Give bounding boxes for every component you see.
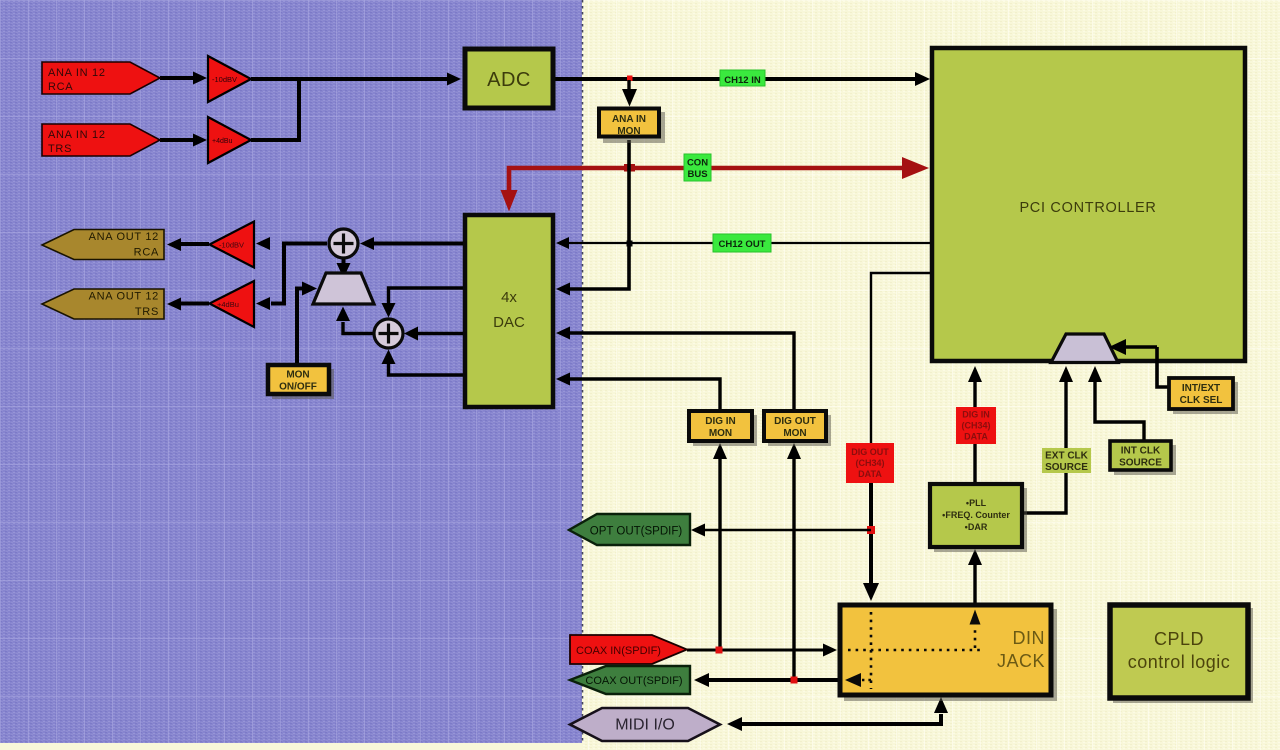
svg-text:TRS: TRS [48, 143, 72, 155]
box DIG OUT MON [764, 411, 831, 446]
junction dot DIG OUT / OPT OUT [867, 526, 875, 534]
connector ANA OUT 12 TRS [42, 289, 164, 319]
amp A3 -10dBV output [210, 222, 255, 268]
svg-text:CON: CON [687, 158, 708, 169]
PCI CONTROLLER U2 [932, 48, 1245, 361]
wire COAX IN up into DIG IN MON [713, 443, 727, 650]
wire monitor mux to summer S1 [337, 258, 351, 278]
svg-text:PCI CONTROLLER: PCI CONTROLLER [1019, 200, 1156, 216]
wire DIN JACK to COAX OUT [694, 673, 838, 687]
label DIG OUT (CH34) DATA [846, 443, 894, 483]
wire ANA IN MON down to DAC input 2 [556, 140, 629, 296]
svg-text:ANA IN 12: ANA IN 12 [48, 67, 106, 79]
svg-text:•PLL: •PLL [966, 498, 987, 508]
svg-text:CH12 IN: CH12 IN [724, 75, 761, 86]
label CH12 IN [720, 70, 765, 86]
ADC U1 [465, 49, 553, 108]
DIN JACK internal arrow to COAX OUT [845, 673, 871, 687]
connector ANA IN 12 TRS [42, 124, 160, 156]
svg-text:ADC: ADC [487, 69, 531, 91]
connector COAX OUT(SPDIF) [570, 666, 690, 694]
amp A4 +4dBu output [210, 281, 255, 327]
label DIG IN (CH34) DATA [956, 407, 996, 444]
svg-text:TRS: TRS [135, 306, 159, 318]
background right yellow panel [582, 0, 1280, 750]
svg-text:DATA: DATA [858, 469, 882, 479]
label CH12 OUT [713, 234, 771, 252]
svg-text:ANA OUT 12: ANA OUT 12 [89, 291, 159, 303]
DIG OUT data wire from PCI down to DIN JACK [863, 273, 930, 601]
clock mux M2 [1051, 334, 1118, 363]
label EXT CLK SOURCE [1042, 448, 1091, 473]
svg-text:•DAR: •DAR [965, 522, 988, 532]
svg-text:•FREQ. Counter: •FREQ. Counter [942, 510, 1010, 520]
wire EXT CLK from PLL to clock mux [1022, 366, 1073, 513]
svg-text:EXT CLK: EXT CLK [1045, 451, 1089, 462]
svg-text:MON: MON [617, 126, 640, 137]
svg-text:INT CLK: INT CLK [1121, 446, 1161, 457]
svg-text:CLK SEL: CLK SEL [1180, 395, 1223, 406]
wire DIG OUT MON to DAC input 3 [556, 327, 794, 411]
svg-text:ON/OFF: ON/OFF [279, 382, 317, 393]
svg-text:RCA: RCA [134, 247, 159, 259]
junction dot COAX OUT / DIG OUT MON [791, 677, 798, 684]
junction CON BUS / monitor line [624, 164, 635, 172]
svg-text:4x: 4x [501, 289, 517, 306]
DIN JACK internal dotted clock route with arrow [970, 610, 981, 649]
svg-text:RCA: RCA [48, 81, 73, 93]
wire junction down to ANA IN MON [622, 80, 637, 107]
wire COAX IN to DIN JACK [687, 644, 837, 657]
svg-text:COAX IN(SPDIF): COAX IN(SPDIF) [576, 645, 661, 657]
svg-text:(CH34): (CH34) [961, 421, 990, 431]
junction dot COAX IN / DIG IN MON [716, 647, 723, 654]
wire summer S1 to output amps (branch) [256, 237, 327, 310]
background left purple panel [0, 0, 582, 750]
svg-text:(CH34): (CH34) [855, 458, 884, 468]
wire ANA IN RCA to amp A1 [160, 72, 207, 85]
connector MIDI I/O [570, 708, 720, 741]
junction dot ADC output [627, 76, 633, 82]
svg-text:+4dBu: +4dBu [217, 300, 239, 309]
svg-text:MIDI I/O: MIDI I/O [615, 717, 675, 734]
wire amp A1 to ADC [251, 73, 461, 86]
wire DAC out3 to summer S2 right [404, 327, 463, 341]
CPLD U4 control logic [1110, 605, 1253, 703]
dotted panel boundary [582, 0, 584, 743]
wire DIN JACK up to PLL [968, 549, 982, 603]
summer S1 [329, 229, 358, 258]
svg-text:ANA IN 12: ANA IN 12 [48, 129, 106, 141]
svg-text:ANA OUT 12: ANA OUT 12 [89, 231, 159, 243]
svg-text:DIG OUT: DIG OUT [774, 416, 816, 427]
box DIG IN MON [689, 411, 757, 446]
wire DAC out1 to summer S1 [360, 237, 463, 250]
svg-text:SOURCE: SOURCE [1119, 458, 1162, 469]
svg-text:CH12 OUT: CH12 OUT [719, 239, 766, 250]
svg-text:ANA IN: ANA IN [612, 114, 646, 125]
svg-text:-10dBV: -10dBV [212, 75, 237, 84]
svg-text:DIN: DIN [1013, 628, 1046, 648]
box INT/EXT CLK SEL [1169, 378, 1238, 414]
svg-text:BUS: BUS [687, 169, 707, 180]
wire DIN JACK to MIDI I/O [727, 697, 948, 731]
junction dot on CH12 OUT line [627, 241, 633, 247]
connector OPT OUT(SPDIF) [569, 514, 690, 545]
DIN JACK J1 [840, 605, 1057, 701]
wire amp A2 merge into ADC line [251, 79, 299, 140]
amp A1 -10dBV [208, 56, 251, 102]
wire DAC out2 down into summer S2 top [382, 288, 464, 318]
svg-text:CPLD: CPLD [1154, 629, 1204, 649]
amp A2 +4dBu [208, 117, 251, 163]
svg-text:MON: MON [709, 428, 732, 439]
svg-text:DAC: DAC [493, 314, 525, 331]
wire branch to OPT OUT [691, 524, 871, 537]
wire ANA IN TRS to amp A2 [160, 134, 207, 147]
connector ANA IN 12 RCA [42, 62, 160, 94]
wire amp A3 to ANA OUT RCA [167, 238, 209, 251]
svg-text:-10dBV: -10dBV [219, 241, 244, 250]
wire MON ON/OFF control to mux [297, 282, 317, 365]
svg-text:COAX OUT(SPDIF): COAX OUT(SPDIF) [585, 675, 682, 687]
wire summer S2 to monitor mux [336, 307, 373, 334]
svg-text:DIG IN: DIG IN [962, 410, 990, 420]
svg-text:JACK: JACK [997, 651, 1045, 671]
connector COAX IN(SPDIF) [570, 635, 687, 664]
box ANA IN MON [599, 109, 665, 144]
svg-text:DATA: DATA [964, 432, 988, 442]
svg-text:MON: MON [286, 370, 309, 381]
wire COAX OUT up into DIG OUT MON [787, 443, 801, 680]
DIN JACK internal dotted route horizontal [848, 649, 980, 652]
svg-text:INT/EXT: INT/EXT [1182, 383, 1220, 394]
connector ANA OUT 12 RCA [42, 230, 164, 260]
box MON ON/OFF [268, 365, 334, 399]
svg-text:MON: MON [783, 428, 806, 439]
label CON BUS [684, 154, 711, 181]
svg-text:OPT OUT(SPDIF): OPT OUT(SPDIF) [590, 526, 683, 538]
box PLL / FREQ counter / DAR [930, 484, 1027, 552]
DAC U3 4x DAC [465, 215, 553, 407]
wire INT CLK SOURCE to clock mux [1088, 366, 1144, 441]
wire amp A4 to ANA OUT TRS [167, 298, 209, 311]
summer S2 [374, 319, 403, 348]
wire DIG IN MON to DAC input 4 [556, 373, 720, 411]
svg-text:DIG OUT: DIG OUT [851, 447, 889, 457]
svg-text:SOURCE: SOURCE [1045, 462, 1088, 473]
wire ADC to PCI (CH12 IN) [555, 72, 930, 86]
svg-text:+4dBu: +4dBu [212, 138, 233, 145]
monitor mux M1 [313, 273, 374, 304]
box INT CLK SOURCE [1110, 441, 1176, 475]
wire INT/EXT CLK SEL to clock mux [1109, 339, 1170, 387]
wire PLL up through DIG IN label to PCI [968, 366, 982, 483]
DIN JACK internal dotted route vertical [870, 612, 873, 689]
svg-text:DIG IN: DIG IN [705, 416, 736, 427]
svg-text:control logic: control logic [1128, 652, 1231, 672]
CH12 OUT wire PCI to DAC [556, 237, 930, 249]
CON BUS red bus wire [501, 157, 930, 212]
wire DAC out4 up into summer S2 bottom [382, 350, 464, 376]
